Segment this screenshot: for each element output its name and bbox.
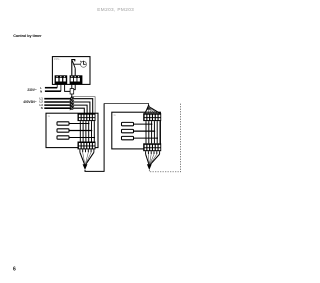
terminal block TB2 (right, inside timer box)	[70, 75, 83, 84]
arrow down unit2 cable	[147, 164, 152, 170]
heater element E2	[57, 129, 69, 132]
wire E5	[134, 130, 155, 132]
mains line L3	[44, 104, 70, 106]
unit1 bottom terminal block	[78, 142, 96, 150]
wire TB1-3 to connector X1	[65, 84, 71, 91]
unit2 incoming fan	[145, 106, 160, 113]
unit1 outgoing cable fan	[80, 149, 94, 152]
unit2 top terminal block	[143, 113, 161, 121]
mains line L2	[44, 101, 70, 103]
heater element E5	[122, 129, 134, 132]
connector X1 (fuse-like)	[70, 89, 74, 94]
timer box U1	[52, 57, 90, 85]
arrow down unit1 cable	[83, 164, 88, 170]
wire E6	[134, 137, 158, 139]
unit1 top terminal block	[78, 113, 96, 121]
heater element E4	[122, 122, 134, 125]
wire TB2-1 down	[71, 84, 73, 88]
svg-text:230V~: 230V~	[27, 88, 36, 92]
unit2 heater box	[112, 112, 161, 149]
dashed wire to further units	[149, 104, 180, 172]
wire E3	[69, 137, 94, 139]
distribution connector squares	[71, 98, 73, 110]
clock symbol	[80, 61, 86, 68]
mains line N	[44, 107, 70, 109]
timer switch contact	[72, 60, 81, 76]
svg-text:230V~: 230V~	[54, 59, 61, 61]
unit2 bottom terminal block	[143, 143, 161, 151]
unit2 internal wires	[146, 121, 160, 143]
svg-text:N: N	[41, 106, 43, 110]
wire L1 to unit1 terminal	[73, 99, 93, 114]
svg-text:1x: 1x	[113, 115, 116, 117]
wire L3 to unit1 terminal	[73, 105, 87, 113]
wire E4	[134, 123, 152, 125]
heater element E1	[57, 122, 69, 125]
node SL junction	[71, 96, 73, 98]
svg-text:6: 6	[13, 266, 16, 272]
wire N to TB1-2	[45, 84, 61, 91]
wire L to TB1-1	[45, 84, 57, 87]
wire L2 to unit1 terminal	[73, 102, 90, 113]
svg-text:400V3N~: 400V3N~	[23, 100, 37, 104]
heater element E6	[122, 136, 134, 139]
wire feed to unit2 top	[104, 103, 149, 105]
wire TB2-2 down to connector	[74, 84, 76, 89]
unit1 heater box	[46, 113, 98, 147]
arrow up unit2 feed	[146, 104, 151, 110]
wire unit1 cable to unit2	[85, 103, 104, 171]
svg-text:1x: 1x	[48, 116, 51, 118]
wire SL (switched line, grey) to unit1	[72, 97, 95, 114]
wire E1	[69, 123, 89, 125]
wire N to unit1 terminal	[73, 108, 84, 113]
wire X1 down to distribution column	[71, 94, 73, 108]
terminal block TB1 (left, inside timer box)	[55, 75, 68, 84]
unit1 internal wires	[80, 121, 94, 141]
mains line L1	[44, 98, 70, 100]
wire E2	[69, 130, 92, 132]
svg-text:N: N	[40, 89, 42, 93]
heater element E3	[57, 136, 69, 139]
unit2 outgoing cable fan	[146, 151, 160, 154]
svg-text:Control by timer: Control by timer	[13, 34, 42, 38]
svg-text:EM203, PM203: EM203, PM203	[97, 7, 134, 12]
